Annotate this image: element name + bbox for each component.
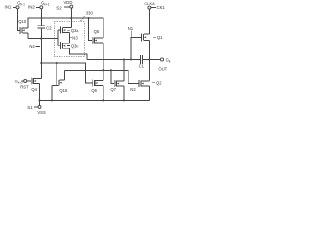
leader Q3b — [67, 45, 70, 47]
wire Q16 source down to VSS bus — [51, 85, 53, 100]
svg-text:CK1: CK1 — [157, 5, 166, 10]
wire Q10 drain to VDD bus — [27, 18, 29, 28]
svg-text:Q6: Q6 — [91, 88, 97, 93]
svg-text:RST: RST — [20, 84, 29, 89]
wire H4 N4 branch — [41, 63, 92, 83]
svg-text:N3: N3 — [72, 35, 78, 40]
wire Q1 source down to OUT node — [148, 41, 150, 81]
transistor Q4 — [31, 78, 41, 85]
wire Q4 drain from N4 — [40, 63, 42, 78]
svg-text:Gk-1: Gk-1 — [17, 1, 25, 7]
svg-text:Gk+1: Gk+1 — [41, 1, 50, 7]
svg-text:Q16: Q16 — [59, 88, 68, 93]
terminal IN1 (Gk-1) — [13, 6, 19, 9]
svg-text:IN2: IN2 — [28, 5, 35, 10]
transistor Q3a — [60, 27, 71, 34]
leader N4 — [35, 45, 40, 47]
transistor Q1 — [141, 33, 149, 41]
svg-text:N1: N1 — [128, 26, 134, 31]
wire Q3 common gate vertical — [58, 30, 61, 46]
transistor Q3b — [60, 42, 69, 49]
svg-text:N2: N2 — [130, 87, 136, 92]
svg-text:Q5: Q5 — [94, 29, 100, 34]
junction Q7 source on VSS bus — [123, 99, 125, 101]
transistor Q16 — [52, 79, 64, 86]
wire CLKA down to Q1 drain — [148, 9, 150, 34]
transistor Q5 — [92, 37, 103, 44]
wire Q6 source down to VSS bus — [102, 86, 104, 101]
svg-text:Gk: Gk — [166, 58, 171, 64]
wire Q2 source down to VSS bus — [148, 86, 150, 100]
transistor Q7 — [114, 80, 124, 87]
svg-text:Q3b: Q3b — [71, 43, 79, 48]
wire Q4 source down to VSS bus — [39, 84, 41, 101]
junction Q7 drain on H3 — [123, 58, 125, 60]
wire VDD terminal to Q3a drain — [70, 8, 72, 26]
svg-text:Q10: Q10 — [18, 19, 27, 24]
wire H2 Q10 source to Q3 gates — [28, 38, 58, 40]
wire Q1 gate to N1 riser — [131, 37, 141, 59]
transistor Q6 — [93, 80, 104, 87]
junction Q6 source on VSS bus — [102, 99, 104, 101]
wire Q16 gate riser from H4 — [56, 63, 58, 79]
terminal RST Gk+2 — [22, 80, 32, 83]
svg-text:S2: S2 — [56, 5, 62, 10]
svg-text:N4: N4 — [29, 44, 35, 49]
wire Q7 gate riser from H5 — [111, 70, 114, 83]
terminal OUT Gk — [160, 58, 163, 61]
svg-text:S1: S1 — [27, 105, 33, 110]
terminal CLKA CK1 — [148, 6, 156, 9]
wire VDD bus H1 — [28, 17, 103, 19]
wire Q3b source path to H3 start — [70, 48, 87, 59]
junction N4 vertical on H2 — [40, 38, 42, 40]
svg-text:VSS: VSS — [37, 110, 46, 115]
leader dashed to box — [81, 15, 86, 21]
wire C2 to N4 node (vertical) — [40, 28, 42, 63]
wire node N3 vertical Q3a source to Q3b drain — [69, 33, 71, 44]
wire VSS bus — [40, 99, 150, 101]
wire H3 N1 line left part — [87, 59, 141, 61]
dashed box 330 around Q3a Q3b — [54, 22, 84, 57]
junction Q5 source Q6 drain on H5 — [102, 69, 104, 71]
capacitor C2 — [38, 26, 45, 28]
capacitor C1 — [140, 55, 142, 64]
junction OUT riser on H3 — [148, 58, 150, 60]
junction Q16 source on VSS bus — [51, 99, 53, 101]
terminal IN2 (Gk+1) — [36, 6, 43, 9]
terminal S2 VDD — [64, 5, 73, 8]
svg-text:Q3a: Q3a — [71, 28, 79, 33]
leader Q2 — [152, 82, 155, 84]
svg-text:CLKA: CLKA — [144, 1, 155, 6]
terminal S1 VSS — [34, 100, 41, 108]
svg-text:VDD: VDD — [64, 0, 73, 5]
svg-text:C1: C1 — [139, 64, 145, 69]
leader Q3a — [67, 29, 70, 31]
wire IN2 down to C2 (crosses VDD bus) — [40, 9, 42, 26]
wire Q5 drain up to bus end — [102, 18, 104, 38]
transistor Q2 — [139, 80, 150, 87]
svg-text:330: 330 — [86, 11, 94, 16]
svg-text:Q1: Q1 — [157, 35, 163, 40]
wire H5 N2 line — [64, 70, 139, 83]
svg-text:IN1: IN1 — [5, 5, 12, 10]
wire Q7 drain up to H3 — [123, 60, 125, 81]
junction VDD on bus — [70, 17, 72, 19]
svg-text:Q4: Q4 — [31, 87, 37, 92]
svg-text:C2: C2 — [46, 25, 52, 30]
junction Q16 gate riser on H4 — [56, 62, 58, 64]
leader N1 — [130, 31, 132, 38]
junction Q7 gate riser on H5 — [110, 69, 112, 71]
wire Q5 source down to H5 (crosses H3) — [102, 43, 104, 70]
wire Q3a drain up (joins VDD vertical) — [70, 18, 72, 28]
svg-text:Q7: Q7 — [110, 87, 116, 92]
wire Q6 drain up to H5 — [102, 70, 104, 80]
wire Q7 source down to VSS bus — [123, 86, 125, 100]
svg-text:OUT: OUT — [158, 67, 167, 72]
leader Q1 — [153, 36, 156, 38]
leader N3 — [70, 37, 72, 39]
wire Q10 source down to H2 — [27, 33, 29, 39]
svg-text:Q2: Q2 — [156, 81, 162, 86]
wire C1 to OUT terminal — [143, 59, 161, 61]
junction S1 Q4 on VSS bus — [38, 99, 40, 101]
junction Q1 gate riser on H3 — [130, 58, 132, 60]
transistor Q10 — [20, 27, 28, 34]
wire Q5 gate riser from VDD bus — [89, 18, 93, 41]
wire IN1 to Q10 gate — [18, 9, 20, 31]
wire Q16 drain up to H5 — [63, 70, 65, 80]
junction Q5 gate riser on bus — [88, 17, 90, 19]
junction N4 vertical on H4 — [40, 62, 42, 64]
